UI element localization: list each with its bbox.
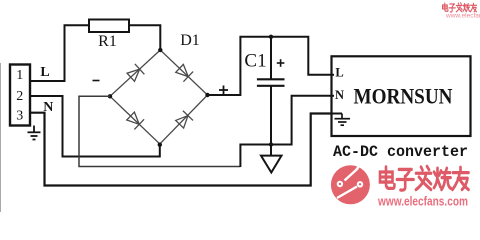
ground symbol inside converter xyxy=(335,114,351,126)
bridge rectifier D1 : diamond xyxy=(110,50,208,144)
svg-text:N: N xyxy=(335,88,344,102)
wire DC- right portion to converter N pin xyxy=(240,96,331,167)
svg-text:L: L xyxy=(40,65,49,80)
char zi xyxy=(397,169,414,190)
svg-text:www.elecfans.com: www.elecfans.com xyxy=(445,13,480,20)
svg-text:MORNSUN: MORNSUN xyxy=(354,84,453,109)
ground triangle (DC output common) xyxy=(261,156,282,173)
watermark chinese text 电子发烧友 xyxy=(380,166,469,190)
wire L net: pin1 to rail through R1 down to bridge top xyxy=(31,25,161,81)
label plus of C1 xyxy=(277,59,285,67)
wire DC+ net: bridge right to rail, to converter L pin xyxy=(208,37,332,95)
tiny top-right watermark chinese chars xyxy=(442,3,476,12)
svg-text:AC-DC converter: AC-DC converter xyxy=(333,143,468,161)
wire PE net: pin3 down along bottom and up into converter ground xyxy=(31,113,343,186)
node dot C1 bottom xyxy=(269,142,273,146)
diode D1d (bottom-right, pointing NE) xyxy=(175,111,193,129)
wire stubs into box xyxy=(332,74,335,76)
label plus xyxy=(219,86,228,95)
svg-text:www.elecfans.com: www.elecfans.com xyxy=(377,193,468,208)
char you xyxy=(453,167,469,189)
diode D1c (left-bottom, pointing SE) xyxy=(126,111,144,129)
node dot C1 top xyxy=(269,35,273,39)
svg-text:3: 3 xyxy=(16,109,23,124)
diode D1b (top-right, pointing SE) xyxy=(175,63,193,81)
svg-text:D1: D1 xyxy=(180,32,200,49)
node dots on bridge xyxy=(158,48,162,52)
svg-text:1: 1 xyxy=(16,68,23,83)
diode D1a (left-top, pointing NE) xyxy=(126,64,144,82)
resistor R1 xyxy=(89,20,129,33)
char fa xyxy=(416,166,431,189)
char dian xyxy=(380,167,395,188)
left edge scan artifact xyxy=(0,63,2,212)
converter U1 MORNSUN box xyxy=(332,56,471,136)
svg-text:C1: C1 xyxy=(244,51,266,72)
svg-text:L: L xyxy=(335,66,343,80)
capacitor C1 xyxy=(270,37,272,79)
wire N net: pin2 down and right to bridge bottom xyxy=(31,96,160,157)
svg-text:R1: R1 xyxy=(98,33,117,50)
char shao xyxy=(434,168,451,189)
connector J1 xyxy=(10,65,30,126)
label minus xyxy=(93,80,100,82)
wire DC- net: bridge left down, right, up to converter N pin xyxy=(79,96,240,166)
ground G1 below connector xyxy=(28,126,41,140)
watermark logo disc xyxy=(331,161,370,204)
svg-text:2: 2 xyxy=(16,89,23,104)
